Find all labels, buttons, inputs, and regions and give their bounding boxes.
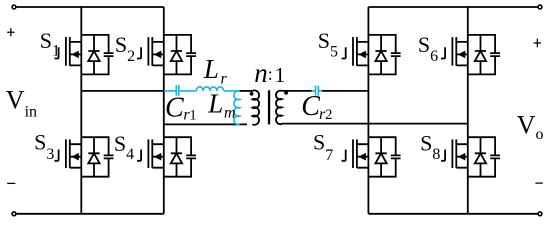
wire: right bridge leg 3 (S5/S7) xyxy=(367,7,369,214)
svg-text:L: L xyxy=(203,54,219,84)
wire: cyan tank wire Lr to Lm node xyxy=(224,90,240,92)
label + (input positive) xyxy=(7,28,14,36)
transformer secondary polarity dot xyxy=(284,91,288,95)
label − (input negative) xyxy=(7,182,15,184)
wire: top-left rail from input + terminal to leg2 corner xyxy=(14,6,164,8)
wire: black top jog from Lm node to primary winding xyxy=(240,90,253,92)
svg-text:S4: S4 xyxy=(114,131,134,163)
switch S6 cell xyxy=(441,35,500,75)
wire: top-right rail from leg3 corner to output + terminal xyxy=(368,6,540,8)
svg-text:C: C xyxy=(301,91,320,122)
wire: bottom-left rail xyxy=(14,213,164,215)
svg-text:r: r xyxy=(221,70,228,87)
transformer primary winding xyxy=(252,90,259,124)
input terminal top-left xyxy=(12,5,16,9)
label − (output negative) xyxy=(535,182,542,184)
switch S7 cell xyxy=(342,137,401,177)
capacitor Cr1 (resonant, cyan) xyxy=(176,85,179,96)
wire: secondary bottom wire crossing leg3 to leg4 midpoint xyxy=(282,123,468,125)
svg-text:S5: S5 xyxy=(318,28,338,60)
output terminal bottom-right xyxy=(538,212,542,216)
wire: secondary top wire from winding to Cr2 xyxy=(282,90,312,92)
wire: right bridge leg 4 (S6/S8) xyxy=(467,7,469,214)
svg-text:n: n xyxy=(254,58,268,88)
svg-text:S7: S7 xyxy=(313,130,333,165)
switch S3 cell xyxy=(55,137,114,177)
transformer core bar xyxy=(268,90,270,124)
inductor Lr (resonant, cyan coil) xyxy=(196,87,223,91)
switch S5 cell xyxy=(342,35,401,75)
wire: left bridge leg 1 (S1/S3) xyxy=(80,7,82,214)
svg-text:L: L xyxy=(207,89,223,119)
wire: bottom-right rail xyxy=(368,213,540,215)
svg-text:S1: S1 xyxy=(40,28,60,59)
svg-text:Vo: Vo xyxy=(517,111,544,143)
input terminal bottom-left xyxy=(12,212,16,216)
transformer secondary winding xyxy=(276,91,282,124)
inductor Lm (magnetizing, cyan vertical winding) xyxy=(234,91,240,125)
wire: secondary top wire from Cr2 to leg3 midpoint xyxy=(322,90,369,92)
wire: cyan tank wire Cr1 to Lr xyxy=(180,90,197,92)
svg-text:1: 1 xyxy=(189,108,196,124)
svg-text:Vin: Vin xyxy=(6,85,37,120)
output terminal top-right xyxy=(538,5,542,9)
svg-text:1: 1 xyxy=(275,63,286,87)
svg-text:C: C xyxy=(165,93,184,124)
capacitor Cr2 (secondary resonant, cyan) xyxy=(312,86,322,96)
svg-text:2: 2 xyxy=(325,107,332,123)
svg-text:m: m xyxy=(224,104,236,121)
switch S2 cell xyxy=(137,35,196,75)
svg-text:S6: S6 xyxy=(418,32,438,65)
svg-text:S2: S2 xyxy=(115,32,135,65)
transformer primary polarity dot xyxy=(250,92,254,96)
wire: node A horizontal wire from leg1 midpoint crossing leg2 xyxy=(81,90,164,92)
switch S1 cell (MOSFET + diode + cap) xyxy=(55,35,114,75)
wire: cyan tank wire leg2 to Cr1 xyxy=(164,90,176,92)
switch S8 cell xyxy=(441,137,500,177)
wire: node B wire from leg2 midpoint to primary winding bottom xyxy=(164,123,247,125)
label + (output positive) xyxy=(534,39,541,48)
switch S4 cell xyxy=(137,137,196,177)
wire: left bridge leg 2 (S2/S4) xyxy=(163,7,165,214)
svg-text:S8: S8 xyxy=(420,130,440,163)
svg-text:S3: S3 xyxy=(34,130,54,163)
